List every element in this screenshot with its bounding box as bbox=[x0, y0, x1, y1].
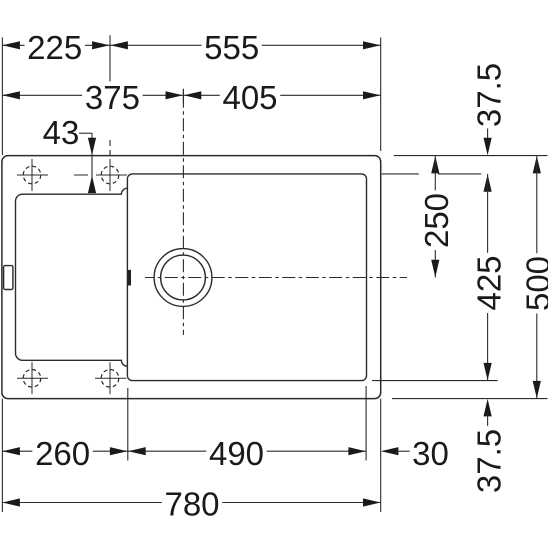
dim 260 arrows bbox=[2, 447, 20, 455]
dim text 500 bbox=[522, 253, 548, 313]
dim 43 line upper bbox=[91, 133, 93, 190]
dim 500 line upper bbox=[533, 156, 541, 174]
dim text 225 bbox=[24, 31, 84, 61]
drainboard outline with steps bbox=[16, 188, 128, 366]
dim 405 arrows bbox=[184, 91, 202, 99]
dim 490 arrows bbox=[128, 447, 146, 455]
extension x=380.7 bottom bbox=[380, 399, 382, 512]
svg-text:260: 260 bbox=[35, 435, 90, 472]
dim 225 arrows bbox=[2, 41, 20, 49]
overflow hole on left rim bbox=[4, 266, 13, 290]
dim 37.5 top line+arrow bbox=[487, 129, 489, 142]
dim text 260 bbox=[32, 437, 92, 467]
svg-text:30: 30 bbox=[412, 435, 449, 472]
sink outer rim 780x500 bbox=[2, 156, 381, 399]
dim 375 arrows bbox=[2, 91, 20, 99]
extension line y=155.5 right bbox=[394, 155, 548, 157]
dim 555 arrows bbox=[110, 41, 128, 49]
svg-text:780: 780 bbox=[164, 485, 219, 522]
dim 250 line upper bbox=[431, 156, 439, 174]
dim line 225 bbox=[2, 44, 110, 46]
drain vertical centerline bbox=[182, 89, 184, 335]
dim text 37.5 top bbox=[473, 60, 503, 130]
dim text 30 bbox=[410, 437, 452, 467]
faucet hole 4 dashed circle + centerlines bbox=[95, 362, 127, 394]
svg-text:490: 490 bbox=[209, 435, 264, 472]
dim text 37.5 bottom bbox=[473, 426, 503, 496]
extension line y=174 right bbox=[382, 173, 482, 175]
svg-text:37.5: 37.5 bbox=[470, 429, 507, 493]
svg-text:500: 500 bbox=[520, 256, 548, 311]
faucet hole 2 dashed circle + centerlines bbox=[74, 159, 127, 191]
svg-text:43: 43 bbox=[43, 114, 80, 151]
dim text 780 bbox=[162, 488, 222, 518]
dim 425 line upper bbox=[484, 174, 492, 192]
dim 500 line lower bbox=[536, 314, 538, 399]
faucet hole 3 dashed circle + centerlines bbox=[17, 362, 48, 394]
drain outer circle bbox=[154, 249, 212, 307]
svg-text:405: 405 bbox=[222, 79, 277, 116]
faucet hole 1 dashed circle + centerlines bbox=[17, 159, 48, 191]
svg-text:555: 555 bbox=[204, 29, 259, 66]
dim 780 arrows bbox=[2, 498, 20, 506]
dim 43 arrow up bbox=[88, 176, 96, 194]
extension line y=380.6 right bbox=[372, 380, 498, 382]
dim text 405 bbox=[220, 81, 280, 111]
dim line 490 bbox=[128, 450, 366, 452]
overflow slot mark on bowl edge bbox=[128, 270, 131, 286]
dim text 555 bbox=[201, 31, 261, 61]
dim text 250 bbox=[420, 190, 450, 250]
main bowl rounded rect bbox=[127, 174, 366, 381]
dim line 780 bbox=[2, 502, 380, 504]
extension line left (x=2) bbox=[1, 38, 3, 156]
dim 30 arrow+line bbox=[381, 447, 399, 455]
dim text 43 bbox=[40, 116, 82, 146]
dim line 375 bbox=[2, 94, 183, 96]
dim 43 arrow down bbox=[88, 138, 96, 156]
svg-text:375: 375 bbox=[85, 79, 140, 116]
extension x=127.8 bottom bbox=[127, 388, 129, 461]
dim text 425 bbox=[473, 253, 503, 313]
drain horizontal centerline bbox=[145, 277, 407, 279]
drain inner circle bbox=[161, 255, 206, 300]
svg-text:225: 225 bbox=[27, 29, 82, 66]
divider tick x=183.4 bbox=[182, 89, 184, 103]
extension x=366.1 bottom bbox=[365, 386, 367, 461]
dim text 490 bbox=[206, 437, 266, 467]
svg-text:425: 425 bbox=[470, 255, 507, 310]
extension line y=398.6 right bbox=[392, 398, 548, 400]
dim 250 line lower bbox=[434, 250, 436, 278]
dim text 375 bbox=[82, 81, 142, 111]
dim line 555 bbox=[110, 44, 381, 46]
dim line 405 bbox=[183, 94, 380, 96]
extension line x=110 (solid+dashed) bbox=[109, 35, 111, 155]
dim line 260 bbox=[2, 450, 127, 452]
dim 425 line lower bbox=[487, 313, 489, 381]
dim 37.5 bottom arrow+line bbox=[484, 399, 492, 417]
svg-text:250: 250 bbox=[418, 193, 455, 248]
extension x=2 bottom bbox=[1, 399, 3, 512]
svg-text:37.5: 37.5 bbox=[470, 63, 507, 127]
dim 43 leader bbox=[79, 132, 92, 134]
extension line right (x=380.7) top bbox=[380, 38, 382, 152]
